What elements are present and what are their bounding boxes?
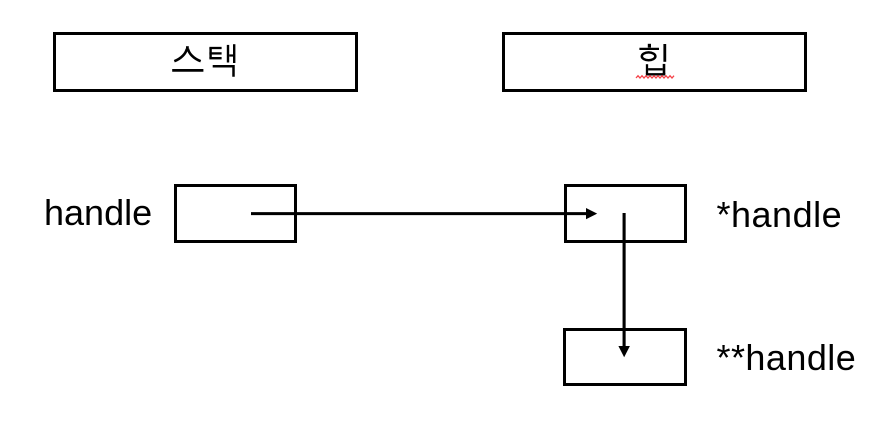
handle label	[44, 195, 152, 231]
heap label 힙 (drawn glyphs)	[635, 40, 675, 80]
stack box (스택)	[53, 32, 358, 92]
heap box (힙)	[502, 32, 807, 92]
handle cell box	[174, 184, 297, 243]
**handle label	[717, 340, 857, 376]
pointer arrow handle -> *handle	[245, 205, 605, 223]
stack label 스택 (drawn glyphs)	[168, 40, 238, 80]
*handle label	[717, 197, 843, 233]
spellcheck squiggle under 힙	[635, 74, 675, 80]
pointer arrow *handle -> **handle	[612, 210, 638, 360]
*handle cell box	[564, 184, 688, 243]
**handle cell box	[563, 328, 687, 386]
